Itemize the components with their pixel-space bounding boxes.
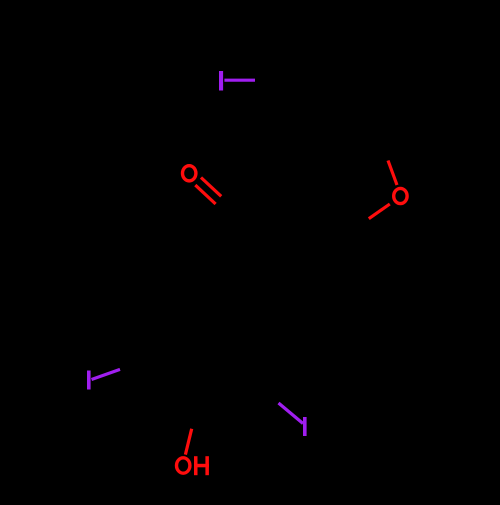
carbonyl O label — [183, 166, 196, 181]
bond furan O lower-left (oxygen half) — [369, 204, 390, 219]
hydroxyl OH label: O — [177, 458, 190, 473]
bond I-CH2 (half, iodine side) — [224, 79, 255, 82]
bond C-OH (oxygen half) — [185, 429, 191, 455]
bond ring-I bottom-right (iodine half) — [279, 403, 304, 424]
iodine I (bottom-right, ring) label — [303, 417, 307, 436]
C=O double bond line 2 (oxygen half) — [195, 185, 215, 204]
C=O double bond line 1 (oxygen half) — [201, 178, 221, 197]
iodine I (top, on CH2) label — [219, 71, 223, 91]
bond ring-I bottom-left (iodine half) — [92, 369, 121, 379]
hydroxyl OH label: H — [194, 456, 209, 475]
furan ring O label — [394, 188, 407, 203]
bond furan O upper (oxygen half) — [388, 161, 397, 186]
iodine I (bottom-left, ring) label — [87, 371, 91, 390]
